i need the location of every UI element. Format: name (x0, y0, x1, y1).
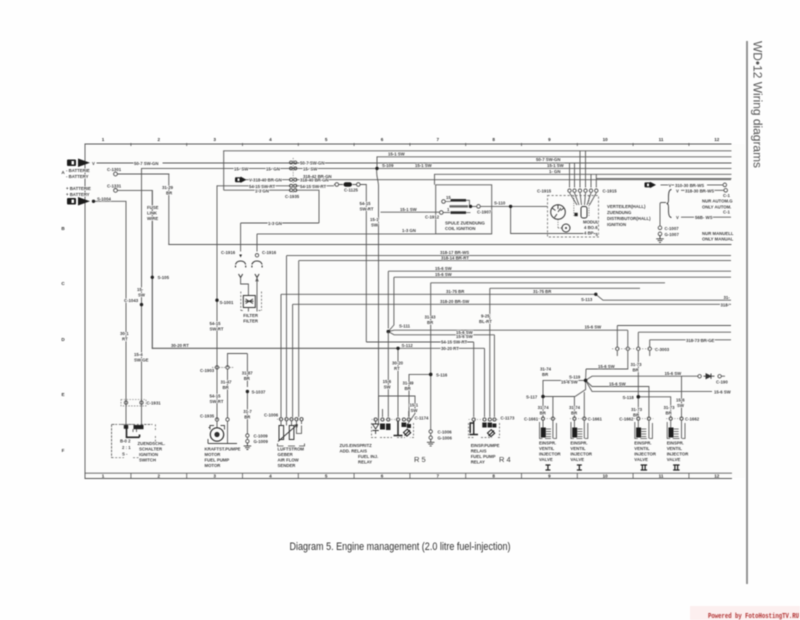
svg-text:S-105: S-105 (158, 275, 170, 280)
injector connector C-1661 pins (573, 417, 586, 420)
wire 1-3 GN to C-1935 pin5 (224, 151, 291, 190)
svg-text:C-190: C-190 (716, 380, 728, 385)
svg-text:31-74: 31-74 (540, 367, 552, 372)
svg-text:S-112: S-112 (402, 343, 414, 348)
svg-text:FILTER: FILTER (243, 319, 259, 324)
label 31-73 BR upper (631, 362, 643, 373)
svg-text:15-6 SW: 15-6 SW (609, 381, 627, 386)
wire 318-20 BR-SW (293, 304, 731, 417)
pump motor inner (214, 432, 219, 437)
svg-text:BR: BR (427, 320, 434, 325)
wire v3 drop from 1-GN (168, 174, 170, 245)
ground symbol G-1009 (244, 443, 252, 450)
label 15-4 SW-GE on v1 (134, 352, 149, 363)
wire 31-43 BR corner (431, 283, 665, 375)
svg-text:9-25: 9-25 (481, 314, 490, 319)
bottom ruler ticks (131, 473, 689, 478)
junction dot S-109 (375, 167, 378, 170)
svg-text:15- SW: 15- SW (303, 167, 318, 172)
distributor cap ticks (552, 205, 564, 218)
label - BATTERIE / - BATTERY (66, 168, 90, 179)
fan below pins (570, 193, 597, 205)
wire 56B- WS (681, 216, 731, 218)
svg-text:15-6 SW: 15-6 SW (456, 334, 474, 339)
pump motor bracket (208, 426, 237, 444)
connector arrow end C-1916 left (239, 255, 242, 258)
svg-text:V: V (676, 215, 679, 220)
svg-text:EINSPR.: EINSPR. (667, 441, 684, 446)
svg-text:10: 10 (603, 474, 609, 479)
connector circle G-1007 (658, 232, 662, 236)
wire 30-20 RT row (152, 348, 484, 417)
svg-text:15-1: 15-1 (370, 217, 379, 222)
svg-text:BL-RT: BL-RT (479, 319, 492, 324)
label 31-73 BR inj4branch (664, 405, 676, 416)
junction dot S-116 (429, 373, 433, 377)
svg-text:15-6: 15-6 (676, 398, 685, 403)
svg-text:2: 2 (158, 137, 161, 142)
svg-text:IGNITION: IGNITION (607, 222, 626, 227)
label FUSE LINK WIRE (147, 205, 159, 221)
svg-text:31-73: 31-73 (631, 407, 643, 412)
wire 15-6 SW first (388, 271, 731, 328)
svg-text:C-1915: C-1915 (537, 188, 552, 193)
svg-text:C-1916: C-1916 (262, 250, 277, 255)
label KRAFTST.PUMPE MOTOR FUEL PUMP MOTOR (205, 447, 241, 469)
svg-text:10: 10 (603, 137, 609, 142)
svg-text:- BATTERIE: - BATTERIE (66, 168, 90, 173)
injector numeral I (577, 465, 582, 470)
filter dashed enclosure (241, 292, 262, 311)
wire 15-1 SW long (142, 167, 732, 169)
wire C-1912 to coil terminal (443, 212, 450, 214)
svg-text:C-1006: C-1006 (438, 430, 453, 435)
svg-text:S-118: S-118 (623, 395, 635, 400)
svg-text:31-49: 31-49 (403, 380, 415, 385)
wire v2 fuse link lower (151, 190, 153, 348)
svg-text:15: 15 (446, 195, 451, 200)
svg-text:1-3 GN: 1-3 GN (255, 188, 269, 193)
injector coil (541, 428, 546, 438)
wire S-119 right upper 15-6 to diode (586, 376, 725, 380)
injector connector C-1661 dashed (570, 418, 589, 420)
svg-text:EINSPR.: EINSPR. (570, 441, 587, 446)
wire 15-1 SW to C-1912 (381, 211, 440, 213)
connector circle C-1931 a (124, 401, 127, 404)
svg-text:2 : 1: 2 : 1 (122, 445, 131, 450)
connector C-3003 dashed row (612, 348, 655, 350)
wire 54-15 SW-RT row (366, 342, 473, 417)
svg-text:15-6 SW: 15-6 SW (435, 272, 453, 277)
injector coil (636, 428, 641, 438)
junction dot S-1001 (215, 299, 218, 302)
svg-text:DISTRIBUTOR(HALL): DISTRIBUTOR(HALL) (607, 216, 651, 221)
label 15-1 SW at R5 (410, 403, 419, 414)
riser pin2 from 15-1 (574, 163, 576, 188)
connector C-3003 circles (616, 347, 652, 350)
svg-text:4 BP: 4 BP (584, 231, 594, 236)
connector circle C-1125 left (335, 183, 339, 187)
label 31-29 BR (162, 185, 174, 196)
rotor center dot (565, 227, 567, 229)
label 30-20 RT on S-112 drop (392, 361, 404, 372)
svg-text:318-20 BR-SW: 318-20 BR-SW (440, 299, 470, 304)
svg-text:15-1 SW: 15-1 SW (415, 163, 433, 168)
svg-text:15-6 SW: 15-6 SW (435, 266, 453, 271)
connector circle G-1006 (429, 436, 432, 439)
svg-text:SW-RT: SW-RT (360, 207, 374, 212)
injector connector C-1662 dashed (666, 418, 686, 420)
pump motor circle (210, 428, 223, 441)
wire right extra row (597, 178, 731, 180)
arrow icon 318-40 (235, 177, 247, 183)
svg-text:7: 7 (437, 137, 440, 142)
label ZUS.EINSPRITZ ADD. RELAIS (340, 443, 379, 465)
switch contact blob 2 (134, 425, 144, 429)
connector C-1935 pin circles (290, 161, 297, 192)
connector C-1903 circles (215, 366, 218, 369)
label 31-7 BR (243, 409, 252, 420)
coil internal leads (445, 200, 470, 212)
connector C-1935 dotted spine (292, 158, 294, 194)
R4 blobs (482, 423, 486, 428)
label EINSP.PUMPE RELAIS FUEL PUMP RELAY (471, 443, 500, 465)
svg-text:5: 5 (325, 137, 328, 142)
wire pin2 below to S-119 net (586, 351, 628, 381)
injector body bracket (571, 422, 588, 439)
svg-text:SW: SW (384, 385, 392, 390)
filter symbol (245, 299, 254, 304)
wire 50-7 SW-GN top battery feed (97, 162, 731, 164)
wire 15-1 SW S-109 drop (377, 157, 379, 425)
junction dot S-1037 (246, 390, 249, 393)
svg-text:SW: SW (411, 408, 419, 413)
svg-text:C-1903: C-1903 (200, 368, 215, 373)
junction dot S-110 (509, 205, 512, 208)
frame bottom ruler line lower (85, 478, 732, 480)
svg-text:G-1006: G-1006 (438, 436, 453, 441)
contact V right (255, 274, 259, 278)
svg-text:3: 3 (213, 137, 216, 142)
svg-text:KRAFTST.PUMPE: KRAFTST.PUMPE (205, 447, 241, 452)
riser pin5 from 1-GN (590, 174, 592, 187)
svg-text:2: 2 (158, 474, 161, 479)
svg-text:12: 12 (714, 137, 720, 142)
connector C-1915 pin circles (568, 189, 598, 192)
svg-text:1-3 GN: 1-3 GN (402, 228, 416, 233)
riser pin6 (595, 174, 598, 187)
svg-text:31-: 31- (724, 295, 731, 300)
wire stub C-1009 (246, 437, 248, 439)
wire 1-3 GN coil loop (257, 185, 492, 252)
svg-text:E: E (61, 392, 64, 397)
bottom column numbers (102, 474, 720, 479)
wire 15-1 branch into R5 pin5 (379, 332, 416, 426)
svg-text:INJECTOR: INJECTOR (539, 452, 562, 457)
relay R4 dotted pin row (469, 419, 500, 421)
svg-text:BR: BR (244, 376, 251, 381)
wire S-117 down to inj1 (542, 397, 544, 419)
connector circle C-1009 (246, 434, 249, 437)
sidebar vertical rule (746, 41, 748, 584)
coil winding bar primary (451, 199, 467, 202)
svg-text:V: V (676, 188, 679, 193)
junction dot S-111 (387, 330, 391, 334)
wire S-110 down branch (511, 206, 599, 233)
coil winding bar secondary (450, 205, 469, 207)
wire S-1004 to v5 (93, 201, 126, 425)
wire S-1037 chain (246, 390, 248, 434)
svg-text:54-15: 54-15 (210, 394, 222, 399)
label 54-15 SW-RT pump (210, 394, 224, 405)
distributor cap circle (551, 205, 566, 220)
wire 15-1 SW upper (377, 156, 731, 158)
svg-text:15-1 SW: 15-1 SW (400, 207, 418, 212)
svg-text:15- SW: 15- SW (234, 167, 249, 172)
svg-text:31-7: 31-7 (243, 409, 252, 414)
svg-text:6: 6 (381, 474, 384, 479)
svg-text:ONLY MANUAL: ONLY MANUAL (702, 237, 734, 242)
svg-text:VALVE: VALVE (634, 457, 648, 462)
svg-text:C-1662: C-1662 (685, 417, 700, 422)
svg-text:C-1907: C-1907 (477, 210, 492, 215)
svg-text:31-75 BR: 31-75 BR (533, 289, 552, 294)
svg-text:G-1009: G-1009 (254, 439, 269, 444)
connector circle C-1931 b (140, 401, 143, 404)
distributor dashed box (548, 196, 599, 238)
air sender wiper arrow (278, 425, 298, 442)
contact V left (239, 274, 243, 278)
wire S-119 down diagonal (575, 380, 586, 396)
connector circle C-1007 (658, 226, 662, 230)
top ruler ticks (131, 143, 689, 479)
wire 54-15 SW-RT row (217, 185, 334, 187)
svg-text:RT: RT (122, 337, 128, 342)
air sender bottom bracket (278, 444, 305, 447)
arrow icon 310-30 (645, 182, 657, 188)
connector circle C-1331 (114, 189, 118, 193)
svg-text:9: 9 (548, 137, 551, 142)
wire C-1007 vertical with hook (660, 203, 666, 226)
label EINSPR VENTIL INJECTOR VALVE (634, 441, 657, 463)
svg-text:BR: BR (633, 412, 640, 417)
R5 coil blob pin2 (380, 424, 385, 430)
svg-text:30-20 RT: 30-20 RT (441, 346, 459, 351)
svg-text:30-20: 30-20 (392, 361, 404, 366)
svg-text:C-1043: C-1043 (124, 298, 139, 303)
svg-text:54-15: 54-15 (210, 321, 222, 326)
wire 31-75 BR (281, 294, 596, 417)
svg-text:VALVE: VALVE (539, 457, 553, 462)
suppressor crown right (252, 261, 262, 268)
svg-text:S-110: S-110 (494, 201, 506, 206)
label 15-6 SW inj4 (676, 398, 685, 409)
wire 15-6 SW second (388, 277, 731, 331)
switch contact blob 1 (124, 425, 128, 429)
battery arrow icon 1 (67, 159, 90, 168)
injector lead verticals (671, 420, 682, 438)
svg-text:VERTEILER(HALL): VERTEILER(HALL) (607, 204, 646, 209)
junction dot S-112 (396, 347, 399, 350)
svg-text:FUEL INJ.: FUEL INJ. (358, 454, 378, 459)
switch wiper bold L (127, 428, 140, 437)
svg-text:318-30 BR-WS: 318-30 BR-WS (685, 188, 714, 193)
svg-text:MOTOR: MOTOR (205, 463, 222, 468)
svg-text:IGNITION: IGNITION (139, 452, 158, 457)
junction dot S-113 (594, 293, 597, 296)
connector circle C-1912 (440, 211, 444, 215)
relay R5 dotted pin row (372, 419, 414, 421)
svg-text:31-87: 31-87 (242, 370, 254, 375)
svg-text:SW-GE: SW-GE (134, 358, 149, 363)
wire 9-25 BL-RT corner (490, 288, 640, 417)
svg-text:ZUENDSCHL.: ZUENDSCHL. (138, 441, 166, 446)
top column numbers (102, 137, 720, 142)
connector circle C-1907 (477, 205, 481, 209)
brace for autom (667, 190, 672, 218)
svg-text:310-30 BR-WS: 310-30 BR-WS (675, 183, 704, 188)
svg-text:BR: BR (540, 410, 547, 415)
svg-text:FUEL PUMP: FUEL PUMP (205, 458, 230, 463)
label 15- SW on v1 (137, 287, 146, 298)
label EINSPR VENTIL INJECTOR VALVE (570, 441, 593, 463)
injector body bracket (667, 422, 685, 439)
label SPULE ZUENDUNG / COIL IGNITION (445, 221, 486, 232)
label EINSPR VENTIL INJECTOR VALVE (667, 441, 690, 463)
label LUFTSTROM GEBER AIR FLOW SENDER (278, 447, 305, 469)
svg-text:1- GN: 1- GN (549, 169, 560, 174)
label EINSPR VENTIL INJECTOR VALVE (539, 441, 562, 463)
svg-text:F: F (62, 448, 65, 453)
wire S-111 out 15-6 upper (388, 330, 628, 346)
svg-text:C-1: C-1 (723, 193, 731, 198)
svg-text:31-73: 31-73 (664, 405, 676, 410)
svg-text:+ BATTERY: + BATTERY (66, 192, 90, 197)
junction dot S-117 (541, 395, 545, 399)
svg-text:31-47: 31-47 (221, 379, 233, 384)
svg-text:11: 11 (659, 137, 664, 142)
svg-text:1: 1 (102, 137, 105, 142)
svg-text:4: 4 (269, 137, 272, 142)
connector body C-1125 (344, 182, 353, 186)
svg-text:RELAIS: RELAIS (471, 449, 487, 454)
injector connector C-1662 pins (669, 417, 683, 420)
wire pin4 below stub (649, 351, 651, 356)
svg-text:15-1 SW: 15-1 SW (547, 163, 565, 168)
svg-text:VENTIL: VENTIL (634, 446, 650, 451)
wire pump second vertical (228, 354, 248, 418)
frame bottom ruler line upper (85, 472, 732, 474)
svg-text:S-1004: S-1004 (97, 197, 111, 202)
label 15-1 SW vertical (370, 217, 379, 228)
svg-text:BR: BR (633, 367, 640, 372)
svg-text:S-109: S-109 (382, 163, 394, 168)
svg-text:WD•12 Wiring diagrams: WD•12 Wiring diagrams (751, 41, 763, 168)
module dotted guides (574, 196, 589, 217)
wire pin3 riser corner right (638, 332, 731, 347)
connector C-1006 circles (279, 418, 303, 421)
svg-text:318-: 318- (721, 302, 730, 307)
label 31-47 BR (221, 379, 233, 390)
svg-text:SW-RT: SW-RT (210, 327, 224, 332)
R5 diode symbol (372, 421, 378, 434)
wire pin3 below 31-73 (637, 351, 639, 418)
junction dot coil output (469, 205, 472, 208)
svg-text:15-6 SW: 15-6 SW (598, 364, 616, 369)
junction dot S-105 (151, 276, 154, 279)
connector C-1903 dashed (212, 366, 234, 368)
svg-text:SWITCH: SWITCH (139, 458, 156, 463)
wire long 30-20 RT row C (169, 244, 731, 246)
svg-text:C-1935: C-1935 (285, 194, 300, 199)
label 31-74 BR left (540, 367, 552, 378)
wire S-119 left to S-117 (543, 380, 586, 396)
svg-text:15-: 15- (137, 287, 144, 292)
wire filter right lead with arrow up (256, 278, 259, 295)
svg-text:BR: BR (571, 410, 578, 415)
svg-text:LUFTSTROM: LUFTSTROM (278, 447, 305, 452)
injector coil (669, 428, 674, 438)
wire S-118 branch to inj4 (638, 397, 670, 418)
svg-text:EINSPR.: EINSPR. (634, 441, 651, 446)
label VERTEILER(HALL) ZUENDUNG DISTRIBUTOR(HALL) IGNITION (607, 204, 651, 227)
svg-text:RELAY: RELAY (471, 460, 485, 465)
svg-text:C-1: C-1 (723, 210, 731, 215)
svg-text:1-3 GN: 1-3 GN (268, 221, 282, 226)
module inner mark (575, 213, 578, 216)
injector numeral II (641, 465, 648, 470)
svg-text:31-74: 31-74 (569, 405, 581, 410)
svg-text:S-111: S-111 (399, 323, 411, 328)
wire 31-43 continue down (430, 374, 432, 429)
svg-text:COIL IGNITION: COIL IGNITION (445, 226, 475, 231)
svg-text:FUSE: FUSE (147, 205, 159, 210)
battery arrow icon 2 S-1004 (67, 197, 90, 206)
svg-text:C-1125: C-1125 (344, 188, 358, 193)
R4 bracket outline (469, 423, 500, 438)
svg-text:Diagram 5. Engine management (: Diagram 5. Engine management (2.0 litre … (290, 541, 511, 553)
connector circle C-1916 right (255, 254, 258, 257)
R5 blob pin3 (386, 424, 391, 431)
svg-text:31-43: 31-43 (425, 315, 437, 320)
junction dot S-118 (637, 395, 641, 399)
label + BATTERIE / + BATTERY (66, 186, 91, 197)
svg-text:C-1174: C-1174 (415, 415, 429, 420)
svg-text:INJECTOR: INJECTOR (634, 452, 657, 457)
module rect (581, 207, 587, 219)
svg-text:4: 4 (269, 474, 272, 479)
svg-text:C-1331: C-1331 (107, 184, 122, 189)
svg-text:SCHALTER: SCHALTER (139, 447, 163, 452)
svg-text:15-1 SW: 15-1 SW (388, 152, 406, 157)
svg-text:C-1009: C-1009 (254, 434, 269, 439)
svg-text:15- GN: 15- GN (266, 167, 280, 172)
label 31-43 BR (425, 315, 437, 326)
svg-text:Powered by FotoHostingTV.RU: Powered by FotoHostingTV.RU (708, 613, 799, 620)
svg-text:G-1007: G-1007 (665, 232, 680, 237)
svg-text:R 4: R 4 (499, 455, 511, 464)
wire S-112 drop (397, 348, 399, 417)
svg-text:50-7 SW-GN: 50-7 SW-GN (536, 157, 561, 162)
svg-text:NUR MANUELL: NUR MANUELL (702, 231, 734, 236)
connector circle C-1125 right (357, 183, 361, 187)
svg-text:B-0 2: B-0 2 (120, 439, 131, 444)
label 31-74 BR inj2 (569, 405, 581, 416)
svg-text:INJECTOR: INJECTOR (667, 452, 690, 457)
diode connector circle right (718, 375, 721, 378)
riser pin1 from 50-7 (569, 163, 571, 188)
svg-text:318-17 BR-WS: 318-17 BR-WS (440, 250, 469, 255)
